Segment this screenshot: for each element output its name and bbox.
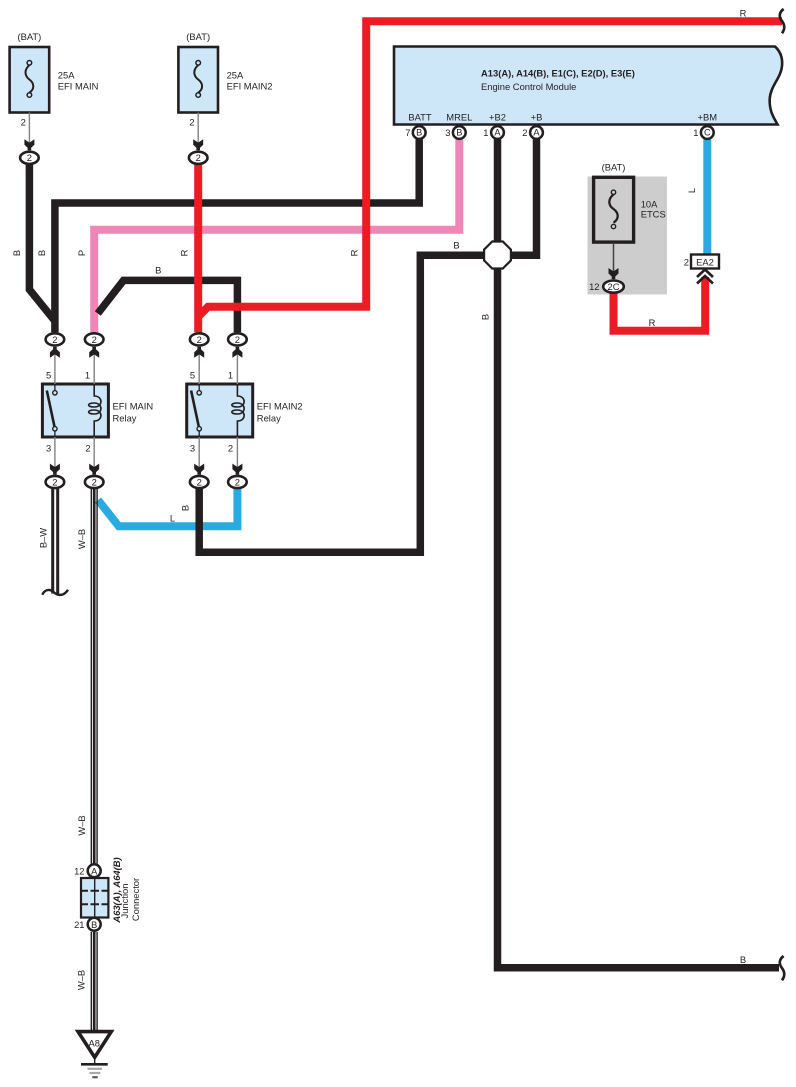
fuse F1 EFI MAIN 25A [10,47,50,113]
fuse F3 value label 10A ETCS [641,199,666,220]
svg-text:5: 5 [190,370,195,381]
connector EA2 with pin number 2 [684,255,719,269]
pin lead fuse F2 to connector [197,113,199,151]
svg-text:Connector: Connector [130,878,141,921]
svg-text:1: 1 [693,127,698,138]
svg-text:A: A [91,866,98,876]
ECM pin 7 circle B BATT [405,126,425,139]
svg-text:2: 2 [92,334,97,345]
arrow up into relay K2 pin1 connector [232,347,242,358]
svg-text:B: B [91,920,97,930]
svg-text:A13(A), A14(B), E1(C), E2(D),: A13(A), A14(B), E1(C), E2(D), E3(E) [481,68,635,79]
break squiggle B-W wire end [42,590,68,595]
wire R from connector 2C to EA2 [614,277,706,331]
svg-text:1: 1 [85,370,90,381]
svg-text:EFI MAIN2: EFI MAIN2 [227,81,273,92]
svg-text:B: B [416,128,422,138]
svg-text:Relay: Relay [113,413,137,424]
relay K2 label EFI MAIN2 Relay [257,401,303,424]
svg-text:2: 2 [52,476,57,487]
fuse F2 value label 25A EFI MAIN2 [227,70,273,92]
svg-text:BATT: BATT [408,112,432,123]
arrow up into relay K1 pin1 connector [89,347,99,358]
wire P from ECM MREL pin to relay1 pin1 [94,139,459,332]
arrow into connector 2C [609,268,619,279]
wire B relay1 pin1 to relay2 pin1 coil link [98,280,238,332]
connector oval 2C with pin number 12 [589,281,624,293]
svg-text:2: 2 [197,476,202,487]
svg-text:+BM: +BM [698,112,718,123]
svg-text:12: 12 [74,866,84,877]
svg-text:A: A [494,128,501,138]
svg-text:B: B [180,505,191,511]
svg-text:EFI MAIN2: EFI MAIN2 [257,401,303,412]
svg-text:B: B [456,128,462,138]
svg-text:2: 2 [189,116,194,127]
svg-text:W–B: W–B [76,970,87,990]
connector oval 2 above relay K2 pin5 [190,333,209,345]
fuse F1 value label 25A EFI MAIN [58,70,99,92]
svg-text:A8: A8 [88,1038,99,1049]
svg-text:(BAT): (BAT) [602,162,626,173]
wire B from ECM BATT pin to relay1 pin5 [55,139,419,332]
svg-text:2: 2 [85,443,90,454]
svg-text:(BAT): (BAT) [18,31,42,42]
wire B node down to battery bottom right [498,265,780,968]
svg-text:2C: 2C [608,281,620,292]
node octagon junction +B/+B2 [484,242,511,269]
svg-text:L: L [170,513,175,524]
connector oval 2 above relay K1 pin5 [46,333,65,345]
connector oval 2 below relay K2 pin3 [190,476,209,488]
svg-text:2: 2 [228,443,233,454]
svg-text:21: 21 [74,919,84,930]
svg-text:W–B: W–B [76,815,87,835]
arrow into fuse F1 connector [24,139,34,150]
svg-text:25A: 25A [227,70,244,81]
svg-text:3: 3 [190,443,195,454]
svg-text:3: 3 [46,443,51,454]
ground A8 [78,1032,111,1078]
ECM U1 module box A13(A),A14(B),E1(C),E2(D),E3(E) [394,47,782,125]
svg-text:R: R [649,317,656,328]
wire B from ECM +B pin to node [509,139,537,255]
svg-text:B–W: B–W [37,528,48,548]
svg-text:Junction: Junction [119,884,130,919]
svg-text:2: 2 [197,334,202,345]
svg-text:MREL: MREL [446,112,472,123]
arrow into relay K1 pin3 connector [50,464,60,475]
ETCS fuse gray panel [588,177,668,295]
arrow into relay K2 pin2 connector [232,464,242,475]
svg-text:5: 5 [46,370,51,381]
wire R top battery feed to fuse F2 wire [199,21,782,316]
wire B from fuse F1 joining BATT wire [29,164,54,321]
connector oval 2 above relay K2 pin1 [228,333,247,345]
pin lead fuse F1 to connector [28,113,30,151]
arrow up into relay K1 pin5 connector [50,347,60,358]
wire L blue relay1 pin2 to relay2 pin2 [98,489,237,527]
arrow into relay K1 pin2 connector [89,464,99,475]
svg-text:+B: +B [531,112,543,123]
svg-text:2: 2 [684,256,689,267]
svg-text:P: P [76,250,87,256]
svg-text:EA2: EA2 [696,256,714,267]
svg-text:2: 2 [92,476,97,487]
svg-text:(BAT): (BAT) [186,31,210,42]
svg-text:3: 3 [445,127,450,138]
svg-text:R: R [740,8,747,19]
relay K2 EFI MAIN2 [187,384,253,437]
svg-text:B: B [11,250,22,256]
connector oval 2 below relay K2 pin2 [228,476,247,488]
svg-text:C: C [704,128,711,138]
svg-text:12: 12 [589,281,599,292]
connector oval 2 below relay K1 pin2 [85,476,104,488]
junction connector pin circle A with number 12 [74,864,101,877]
svg-text:EFI MAIN: EFI MAIN [58,81,99,92]
svg-text:2: 2 [196,152,201,163]
svg-text:EFI MAIN: EFI MAIN [113,401,154,412]
svg-text:B: B [155,265,161,276]
relay K1 label EFI MAIN Relay [113,401,154,424]
svg-text:1: 1 [483,127,488,138]
svg-text:B: B [36,250,47,256]
junction connector J1 A63(A),A64(B) [81,878,108,918]
svg-text:ETCS: ETCS [641,209,666,220]
svg-text:2: 2 [235,334,240,345]
arrow up into relay K2 pin5 connector [194,347,204,358]
shield chevrons below EA2 [697,270,713,284]
wire W-B striped from junction connector B to ground A8 [91,932,97,1032]
wire R from fuse F2 to relay2 pin5 [194,164,202,332]
wire B-W double line from relay1 pin3 [53,489,58,595]
fuse F3 ETCS 10A [594,177,634,242]
svg-text:25A: 25A [58,70,75,81]
wire W-B striped from relay1 pin2 to junction connector A [91,489,97,864]
relay K1 EFI MAIN [42,384,108,437]
ECM pin 3 circle B MREL [445,126,465,139]
svg-text:B: B [479,314,490,320]
wire B node left branch to relay2 pin3 [199,255,486,552]
fuse F2 EFI MAIN2 25A [178,47,218,113]
svg-text:2: 2 [27,152,32,163]
svg-text:+B2: +B2 [489,112,506,123]
arrow into fuse F2 connector [193,139,203,150]
ECM pin 2 circle A +B [522,126,543,139]
svg-text:Engine Control Module: Engine Control Module [481,81,576,92]
svg-text:W–B: W–B [76,529,87,549]
connector oval 2 at fuse F1 [20,152,39,164]
break squiggle top right red wire [780,9,785,33]
ECM pin 1 circle A +B2 [483,126,504,139]
connector oval 2 below relay K1 pin3 [46,476,65,488]
pin leads relay K2 [199,347,237,475]
svg-text:2: 2 [21,116,26,127]
svg-text:Relay: Relay [257,413,281,424]
svg-text:1: 1 [228,370,233,381]
svg-text:B: B [740,954,746,965]
break squiggle bottom right black wire [780,956,785,980]
pin leads relay K1 [55,347,94,475]
svg-text:R: R [349,249,360,256]
svg-text:B: B [453,239,459,250]
connector oval 2 at fuse F2 [189,152,208,164]
svg-text:2: 2 [235,476,240,487]
svg-text:2: 2 [522,127,527,138]
junction connector label Junction Connector [119,878,141,921]
wire B from ECM +B2 pin to node [494,139,502,245]
svg-text:2: 2 [52,334,57,345]
svg-text:R: R [178,249,189,256]
ECM pin 1 circle C +BM [693,126,713,139]
arrow into relay K2 pin3 connector [194,464,204,475]
junction connector pin circle B with number 21 [74,918,101,931]
connector oval 2 above relay K1 pin1 [85,333,104,345]
svg-text:A: A [533,128,540,138]
svg-text:L: L [686,188,697,193]
wire L from ECM +BM pin to EA2 [703,139,711,257]
pin lead fuse F3 to connector 2C [613,243,615,280]
svg-text:7: 7 [405,127,410,138]
